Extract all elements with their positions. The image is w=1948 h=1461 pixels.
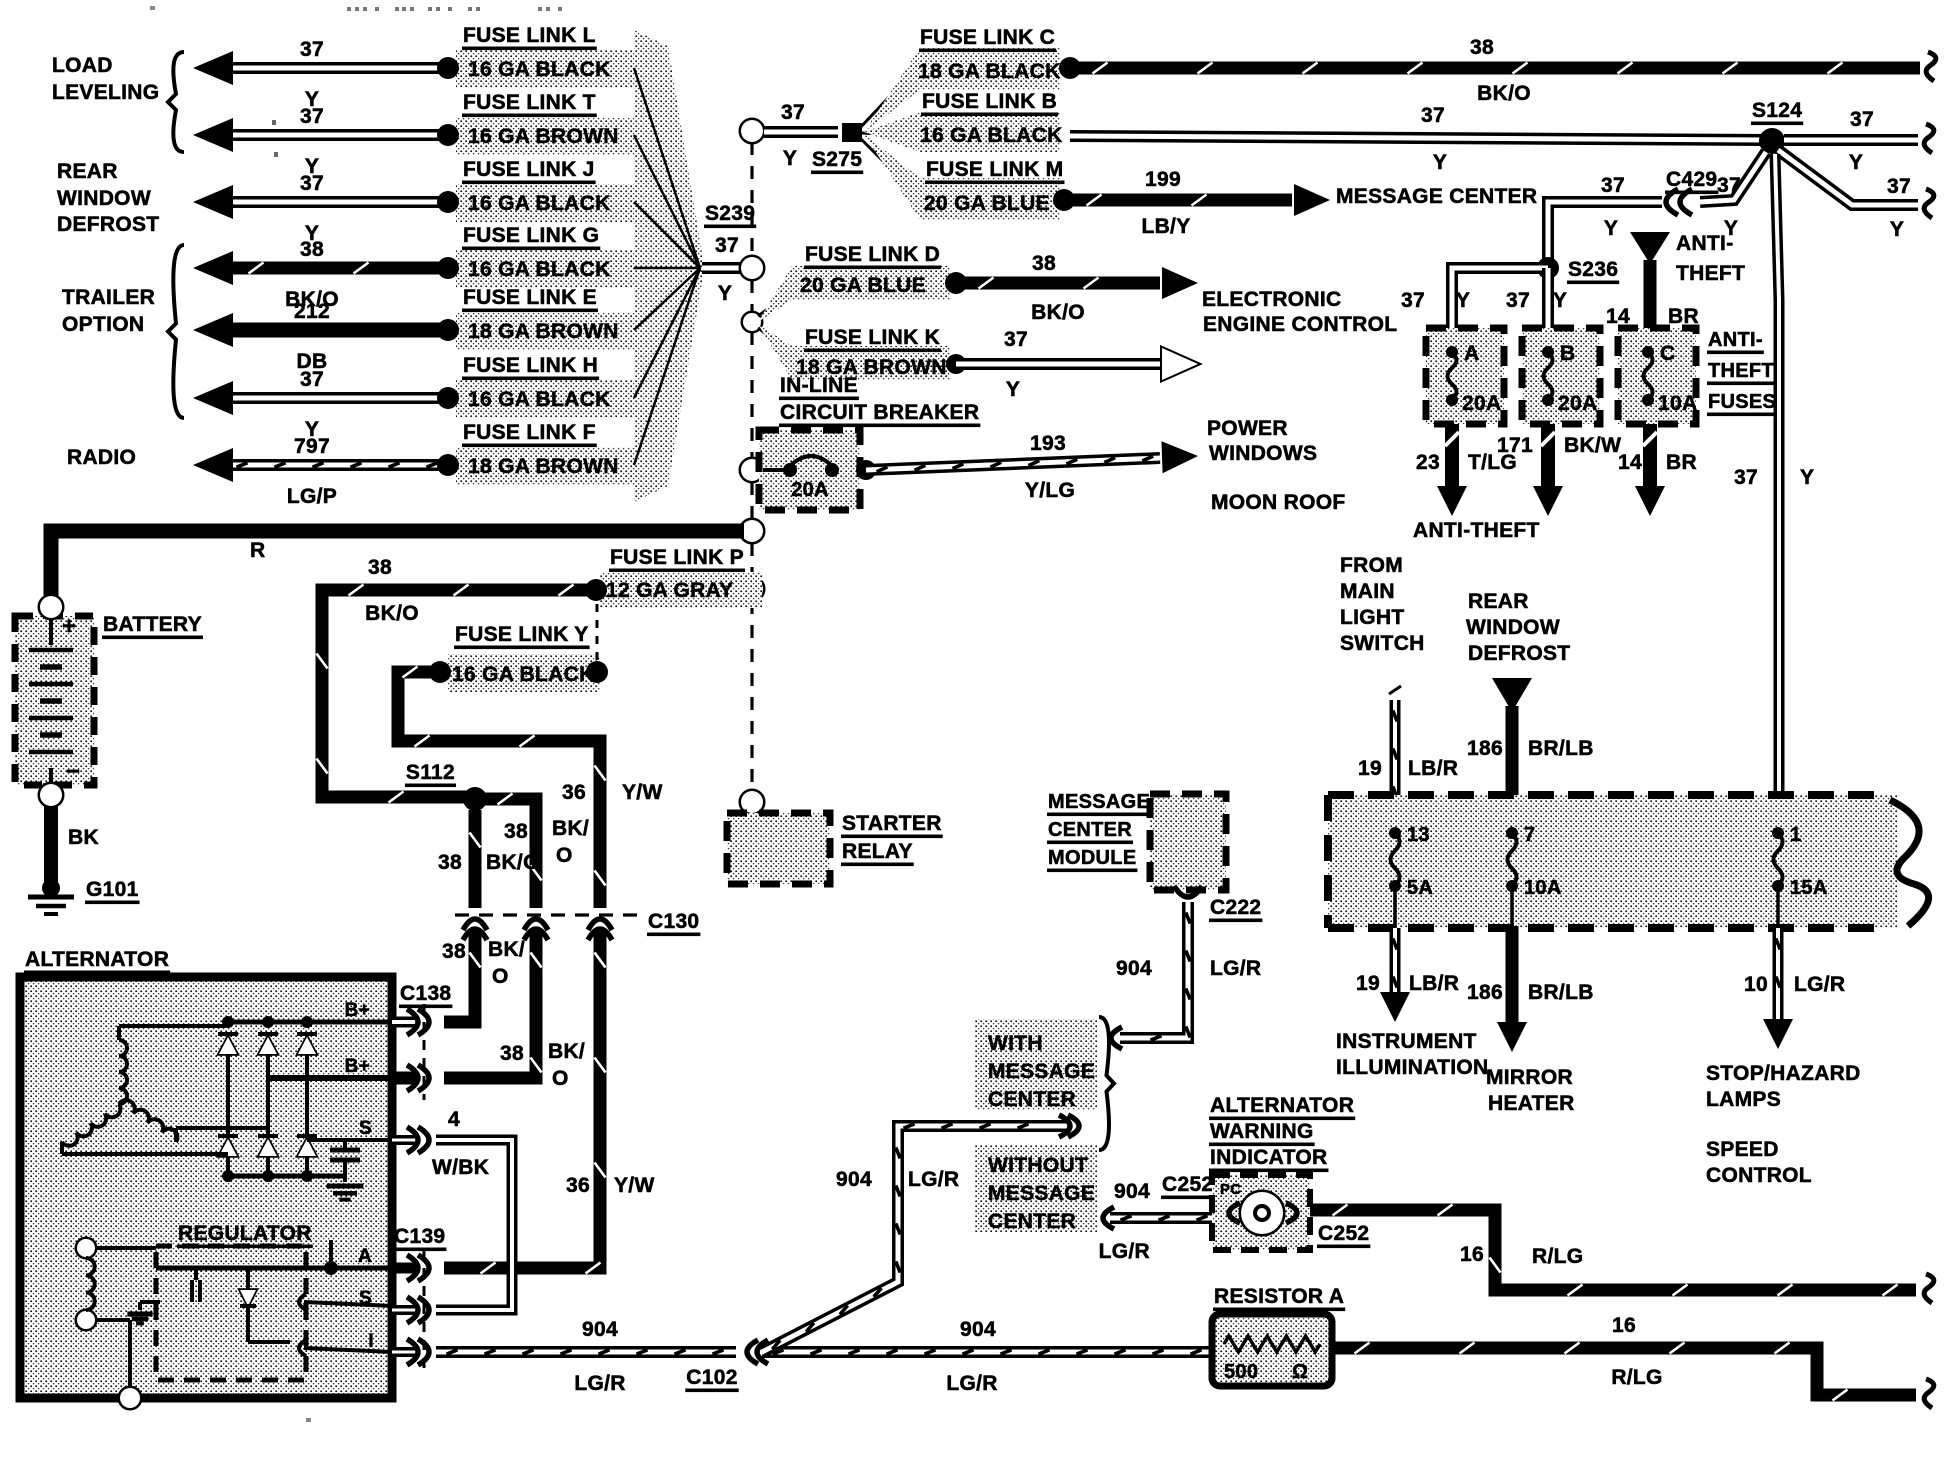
- svg-text:C429: C429: [1666, 168, 1717, 191]
- svg-text:Y: Y: [783, 147, 797, 170]
- svg-text:Y: Y: [1849, 151, 1863, 174]
- svg-text:MODULE: MODULE: [1048, 847, 1136, 869]
- svg-text:7: 7: [1524, 824, 1535, 846]
- svg-text:CIRCUIT BREAKER: CIRCUIT BREAKER: [780, 401, 979, 424]
- svg-text:Y/W: Y/W: [614, 1174, 655, 1197]
- svg-text:38: 38: [1032, 252, 1056, 275]
- svg-text:IN-LINE: IN-LINE: [780, 374, 858, 397]
- svg-text:S239: S239: [705, 202, 755, 225]
- svg-text:FUSE LINK D: FUSE LINK D: [805, 243, 940, 266]
- svg-text:16 GA BLACK: 16 GA BLACK: [468, 258, 611, 281]
- svg-text:REAR: REAR: [1468, 590, 1529, 613]
- svg-text:STARTER: STARTER: [842, 812, 942, 835]
- svg-text:904: 904: [582, 1318, 618, 1341]
- svg-text:186: 186: [1467, 981, 1503, 1004]
- svg-text:5A: 5A: [1407, 877, 1433, 899]
- svg-text:23: 23: [1416, 451, 1440, 474]
- svg-text:O: O: [492, 965, 509, 988]
- svg-text:ELECTRONIC: ELECTRONIC: [1202, 288, 1342, 311]
- svg-text:FUSE LINK Y: FUSE LINK Y: [455, 623, 589, 646]
- svg-text:37: 37: [1506, 289, 1530, 312]
- svg-text:37: 37: [1887, 175, 1911, 198]
- svg-text:BK/: BK/: [548, 1040, 585, 1063]
- svg-text:ENGINE CONTROL: ENGINE CONTROL: [1203, 313, 1397, 336]
- svg-text:LAMPS: LAMPS: [1706, 1088, 1781, 1111]
- svg-text:16 GA BLACK: 16 GA BLACK: [452, 663, 595, 686]
- svg-text:37: 37: [1004, 328, 1028, 351]
- svg-text:CONTROL: CONTROL: [1706, 1164, 1812, 1187]
- svg-text:38: 38: [500, 1042, 524, 1065]
- svg-text:B+: B+: [345, 1056, 370, 1077]
- svg-text:RELAY: RELAY: [842, 840, 913, 863]
- svg-text:C139: C139: [394, 1225, 445, 1248]
- svg-text:R: R: [250, 539, 265, 562]
- svg-text:BR/LB: BR/LB: [1528, 737, 1594, 760]
- svg-text:FUSE LINK F: FUSE LINK F: [463, 421, 596, 444]
- svg-text:904: 904: [1116, 957, 1152, 980]
- svg-text:38: 38: [442, 940, 466, 963]
- svg-text:Y: Y: [1890, 218, 1904, 241]
- svg-text:10: 10: [1744, 973, 1768, 996]
- svg-text:38: 38: [300, 238, 324, 261]
- svg-text:MAIN: MAIN: [1340, 580, 1395, 603]
- svg-text:13: 13: [1407, 824, 1430, 846]
- svg-text:FUSE LINK T: FUSE LINK T: [463, 91, 596, 114]
- svg-text:16 GA BLACK: 16 GA BLACK: [468, 192, 611, 215]
- svg-text:20 GA BLUE: 20 GA BLUE: [924, 192, 1050, 215]
- svg-text:REGULATOR: REGULATOR: [178, 1222, 312, 1245]
- svg-text:BR: BR: [1666, 451, 1697, 474]
- svg-text:16: 16: [1612, 1314, 1636, 1337]
- svg-text:DEFROST: DEFROST: [57, 213, 159, 236]
- svg-text:R/LG: R/LG: [1532, 1245, 1583, 1268]
- svg-text:38: 38: [438, 851, 462, 874]
- svg-text:G101: G101: [86, 878, 139, 901]
- svg-text:18 GA BLACK: 18 GA BLACK: [918, 60, 1061, 83]
- svg-text:Y: Y: [1604, 217, 1618, 240]
- svg-text:LB/R: LB/R: [1409, 972, 1459, 995]
- svg-text:FUSE LINK E: FUSE LINK E: [463, 286, 597, 309]
- svg-text:193: 193: [1030, 432, 1066, 455]
- svg-text:BK/O: BK/O: [1031, 301, 1085, 324]
- svg-text:W/BK: W/BK: [432, 1156, 489, 1179]
- svg-text:19: 19: [1358, 757, 1382, 780]
- svg-text:S275: S275: [812, 148, 862, 171]
- svg-text:38: 38: [504, 820, 528, 843]
- svg-text:ANTI-THEFT: ANTI-THEFT: [1413, 519, 1540, 542]
- svg-text:19: 19: [1356, 972, 1380, 995]
- svg-text:RADIO: RADIO: [67, 446, 136, 469]
- svg-text:LG/R: LG/R: [908, 1168, 959, 1191]
- svg-text:DEFROST: DEFROST: [1468, 642, 1570, 665]
- svg-text:904: 904: [960, 1318, 996, 1341]
- svg-text:12 GA GRAY: 12 GA GRAY: [606, 579, 734, 602]
- svg-text:186: 186: [1467, 737, 1503, 760]
- svg-text:WINDOW: WINDOW: [1466, 616, 1560, 639]
- svg-text:38: 38: [1470, 36, 1494, 59]
- svg-text:FUSE LINK H: FUSE LINK H: [463, 354, 598, 377]
- svg-text:PC: PC: [1220, 1181, 1241, 1198]
- svg-text:WITHOUT: WITHOUT: [988, 1154, 1088, 1177]
- svg-text:FUSE LINK B: FUSE LINK B: [922, 90, 1057, 113]
- svg-text:171: 171: [1497, 434, 1533, 457]
- svg-text:20 GA BLUE: 20 GA BLUE: [800, 274, 926, 297]
- svg-text:LG/R: LG/R: [1794, 973, 1845, 996]
- svg-text:TRAILER: TRAILER: [62, 286, 155, 309]
- svg-text:WINDOW: WINDOW: [57, 187, 151, 210]
- svg-text:ILLUMINATION: ILLUMINATION: [1336, 1056, 1489, 1079]
- svg-text:37: 37: [300, 172, 324, 195]
- svg-text:LG/R: LG/R: [1210, 957, 1261, 980]
- svg-text:16 GA BLACK: 16 GA BLACK: [468, 58, 611, 81]
- svg-text:LB/Y: LB/Y: [1141, 215, 1190, 238]
- svg-text:LEVELING: LEVELING: [52, 81, 159, 104]
- svg-text:37: 37: [781, 101, 805, 124]
- svg-text:16 GA BLACK: 16 GA BLACK: [468, 388, 611, 411]
- svg-text:199: 199: [1145, 168, 1181, 191]
- svg-text:O: O: [552, 1067, 569, 1090]
- svg-text:CENTER: CENTER: [988, 1088, 1076, 1111]
- svg-text:BR/LB: BR/LB: [1528, 981, 1594, 1004]
- svg-text:POWER: POWER: [1207, 417, 1288, 440]
- svg-text:BK/: BK/: [552, 817, 589, 840]
- svg-text:37: 37: [1850, 108, 1874, 131]
- svg-text:C130: C130: [648, 910, 699, 933]
- svg-text:FUSES: FUSES: [1708, 391, 1776, 413]
- svg-text:LG/R: LG/R: [1099, 1240, 1150, 1263]
- svg-text:37: 37: [1421, 104, 1445, 127]
- svg-text:OPTION: OPTION: [62, 313, 144, 336]
- svg-text:SPEED: SPEED: [1706, 1138, 1779, 1161]
- svg-text:Y: Y: [1800, 466, 1814, 489]
- svg-text:BK/O: BK/O: [1477, 82, 1531, 105]
- svg-text:LB/R: LB/R: [1408, 757, 1458, 780]
- svg-text:MESSAGE CENTER: MESSAGE CENTER: [1336, 185, 1537, 208]
- svg-text:20A: 20A: [1558, 392, 1597, 415]
- svg-text:INDICATOR: INDICATOR: [1210, 1146, 1327, 1169]
- svg-text:LG/P: LG/P: [287, 485, 337, 508]
- svg-text:I: I: [368, 1331, 374, 1352]
- svg-text:15A: 15A: [1790, 877, 1828, 899]
- svg-text:C252: C252: [1162, 1173, 1213, 1196]
- svg-text:37: 37: [300, 105, 324, 128]
- svg-text:Y: Y: [1006, 378, 1020, 401]
- svg-text:ANTI-: ANTI-: [1708, 329, 1763, 351]
- svg-text:S112: S112: [406, 761, 455, 784]
- svg-text:LOAD: LOAD: [52, 54, 113, 77]
- svg-text:16: 16: [1460, 1243, 1484, 1266]
- svg-text:LG/R: LG/R: [574, 1372, 625, 1395]
- svg-text:FUSE LINK L: FUSE LINK L: [463, 24, 596, 47]
- svg-text:1: 1: [1790, 824, 1801, 846]
- svg-text:16 GA BROWN: 16 GA BROWN: [468, 125, 619, 148]
- svg-text:S236: S236: [1568, 258, 1618, 281]
- svg-text:A: A: [358, 1246, 372, 1267]
- svg-text:MOON ROOF: MOON ROOF: [1211, 491, 1346, 514]
- svg-text:37: 37: [300, 38, 324, 61]
- svg-text:212: 212: [294, 300, 330, 323]
- svg-text:36: 36: [562, 781, 586, 804]
- svg-text:HEATER: HEATER: [1488, 1092, 1575, 1115]
- svg-text:MESSAGE: MESSAGE: [1048, 791, 1150, 813]
- svg-text:BK: BK: [68, 826, 99, 849]
- svg-text:37: 37: [1401, 289, 1425, 312]
- svg-text:37: 37: [1601, 174, 1625, 197]
- svg-text:O: O: [556, 844, 573, 867]
- svg-text:Y: Y: [1553, 289, 1567, 312]
- svg-text:FROM: FROM: [1340, 554, 1403, 577]
- svg-text:−: −: [66, 758, 80, 785]
- svg-text:ANTI-: ANTI-: [1676, 232, 1734, 255]
- svg-text:37: 37: [300, 368, 324, 391]
- svg-text:16 GA BLACK: 16 GA BLACK: [920, 124, 1063, 147]
- svg-text:ALTERNATOR: ALTERNATOR: [1210, 1094, 1354, 1117]
- svg-text:10A: 10A: [1524, 877, 1562, 899]
- svg-text:THEFT: THEFT: [1708, 360, 1774, 382]
- svg-text:Y: Y: [1456, 289, 1470, 312]
- svg-text:20A: 20A: [791, 479, 829, 501]
- svg-text:MESSAGE: MESSAGE: [988, 1060, 1095, 1083]
- svg-text:4: 4: [448, 1108, 460, 1131]
- svg-text:Y: Y: [718, 282, 732, 305]
- svg-text:Y/W: Y/W: [622, 781, 663, 804]
- svg-text:INSTRUMENT: INSTRUMENT: [1336, 1030, 1477, 1053]
- svg-text:LIGHT: LIGHT: [1340, 606, 1405, 629]
- svg-text:LG/R: LG/R: [946, 1372, 997, 1395]
- svg-text:SWITCH: SWITCH: [1340, 632, 1425, 655]
- svg-text:WINDOWS: WINDOWS: [1209, 442, 1317, 465]
- svg-text:C138: C138: [400, 982, 451, 1005]
- svg-text:CENTER: CENTER: [988, 1210, 1076, 1233]
- svg-text:36: 36: [566, 1174, 590, 1197]
- svg-text:FUSE LINK J: FUSE LINK J: [463, 158, 595, 181]
- svg-text:FUSE LINK K: FUSE LINK K: [805, 326, 940, 349]
- svg-text:20A: 20A: [1462, 392, 1501, 415]
- svg-text:S124: S124: [1752, 99, 1802, 122]
- svg-text:C222: C222: [1210, 896, 1261, 919]
- svg-text:ALTERNATOR: ALTERNATOR: [25, 948, 169, 971]
- svg-text:500: 500: [1224, 1361, 1258, 1383]
- svg-text:Ω: Ω: [1292, 1361, 1308, 1383]
- svg-text:C102: C102: [686, 1366, 737, 1389]
- svg-text:B: B: [1560, 342, 1575, 365]
- svg-text:MESSAGE: MESSAGE: [988, 1182, 1095, 1205]
- svg-text:904: 904: [1114, 1180, 1150, 1203]
- svg-text:REAR: REAR: [57, 160, 118, 183]
- svg-text:BK/: BK/: [488, 938, 525, 961]
- svg-text:37: 37: [1734, 466, 1758, 489]
- svg-text:C252: C252: [1318, 1222, 1369, 1245]
- svg-text:+: +: [62, 613, 76, 640]
- svg-text:STOP/HAZARD: STOP/HAZARD: [1706, 1062, 1861, 1085]
- svg-text:FUSE LINK P: FUSE LINK P: [610, 546, 744, 569]
- svg-text:C: C: [1660, 342, 1675, 365]
- svg-text:FUSE LINK C: FUSE LINK C: [920, 26, 1055, 49]
- svg-text:Y/LG: Y/LG: [1025, 479, 1075, 502]
- svg-text:FUSE LINK M: FUSE LINK M: [926, 158, 1063, 181]
- svg-text:38: 38: [368, 556, 392, 579]
- svg-text:MIRROR: MIRROR: [1486, 1066, 1573, 1089]
- svg-text:BK/W: BK/W: [1564, 434, 1621, 457]
- svg-text:37: 37: [715, 234, 739, 257]
- svg-text:THEFT: THEFT: [1676, 262, 1745, 285]
- svg-text:B+: B+: [345, 1000, 370, 1021]
- svg-text:Y: Y: [1433, 151, 1447, 174]
- svg-text:14: 14: [1618, 451, 1642, 474]
- svg-text:WITH: WITH: [988, 1032, 1043, 1055]
- svg-text:18 GA BROWN: 18 GA BROWN: [468, 320, 619, 343]
- svg-text:CENTER: CENTER: [1048, 819, 1132, 841]
- svg-text:797: 797: [294, 435, 330, 458]
- svg-text:FUSE LINK G: FUSE LINK G: [463, 224, 599, 247]
- svg-text:37: 37: [1717, 174, 1741, 197]
- svg-text:10A: 10A: [1658, 392, 1697, 415]
- svg-text:BK/O: BK/O: [486, 851, 540, 874]
- svg-text:BATTERY: BATTERY: [103, 613, 202, 636]
- svg-text:WARNING: WARNING: [1210, 1120, 1314, 1143]
- svg-text:R/LG: R/LG: [1611, 1366, 1662, 1389]
- svg-text:RESISTOR A: RESISTOR A: [1214, 1285, 1344, 1308]
- svg-text:18 GA BROWN: 18 GA BROWN: [468, 455, 619, 478]
- svg-text:BK/O: BK/O: [365, 602, 419, 625]
- svg-text:904: 904: [836, 1168, 872, 1191]
- svg-text:A: A: [1464, 342, 1479, 365]
- svg-text:S: S: [359, 1118, 372, 1139]
